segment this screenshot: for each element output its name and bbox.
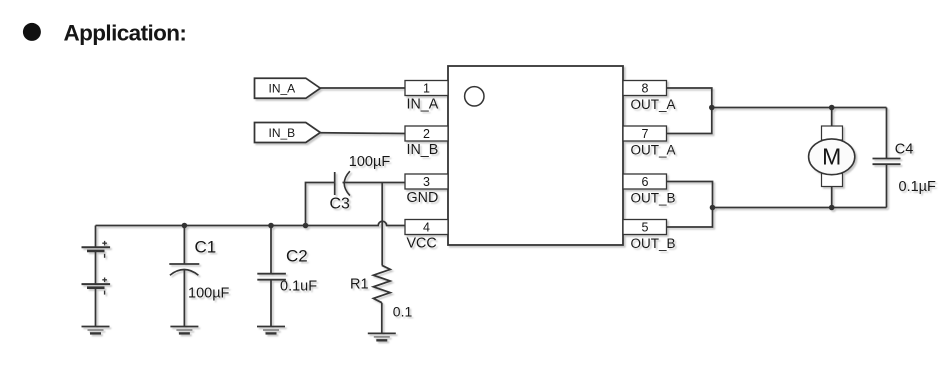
svg-text:IN_B: IN_B [407, 142, 439, 158]
ground (C2) [257, 327, 285, 334]
svg-text:OUT_B: OUT_B [631, 236, 676, 251]
svg-text:C1: C1 [195, 237, 217, 256]
pin-1 indicator circle [465, 87, 484, 106]
battery B1 [82, 226, 111, 285]
wire pin 8 stub [667, 88, 712, 134]
svg-text:100µF: 100µF [188, 285, 230, 301]
connector flag IN_B [255, 123, 321, 143]
wire VCC rail with hop over GND line [96, 221, 406, 225]
svg-text:IN_A: IN_A [269, 82, 296, 96]
svg-text:OUT_A: OUT_A [631, 97, 676, 112]
op-amp U1 IC body [448, 66, 623, 245]
node motor bottom junction [829, 205, 835, 211]
svg-text:7: 7 [642, 127, 649, 141]
svg-text:R1: R1 [350, 277, 369, 293]
node C3 junction [303, 223, 309, 229]
svg-text:VCC: VCC [407, 235, 437, 251]
wire GND net vertical (pin3 to R1) [381, 183, 383, 266]
wire pin 6 stub [667, 182, 713, 228]
svg-text:IN_B: IN_B [269, 126, 296, 140]
svg-text:3: 3 [423, 175, 430, 189]
svg-text:C2: C2 [286, 246, 308, 265]
node C1 junction [182, 223, 188, 229]
pin 4 VCC [405, 220, 448, 252]
ground (C1) [170, 327, 198, 334]
node bus B junction [710, 205, 716, 211]
wire rail A to motor/C4 [712, 107, 887, 109]
node C2 junction [268, 223, 274, 229]
wire rail B to motor/C4 [713, 207, 887, 209]
svg-text:IN_A: IN_A [407, 97, 439, 113]
node bus A junction [709, 105, 715, 111]
svg-text:OUT_A: OUT_A [631, 143, 676, 158]
svg-text:5: 5 [642, 221, 649, 235]
motor M1 [809, 108, 855, 208]
resistor R1 [350, 265, 412, 333]
svg-text:6: 6 [642, 175, 649, 189]
svg-text:8: 8 [642, 82, 649, 96]
svg-text:0.1uF: 0.1uF [280, 279, 317, 295]
pin 6 OUT_B [623, 174, 676, 205]
svg-text:0.1: 0.1 [393, 304, 413, 320]
svg-text:100µF: 100µF [349, 154, 391, 170]
pin 2 IN_B [405, 126, 448, 158]
pin 5 OUT_B [623, 220, 676, 251]
svg-text:Application:: Application: [64, 21, 187, 46]
svg-text:1: 1 [423, 82, 430, 96]
ground (R1) [368, 333, 396, 340]
connector flag IN_A [255, 78, 321, 98]
svg-text:0.1µF: 0.1µF [899, 179, 937, 195]
pin 1 IN_A [405, 81, 448, 113]
wire IN_A to pin 1 [320, 87, 405, 89]
wire IN_B to pin 2 [320, 132, 405, 135]
svg-text:GND: GND [407, 190, 439, 206]
node motor top junction [829, 105, 835, 111]
bullet [23, 23, 41, 41]
svg-text:4: 4 [423, 221, 430, 235]
svg-text:2: 2 [423, 127, 430, 141]
capacitor C4 [873, 108, 937, 208]
pin 7 OUT_A [623, 126, 676, 158]
svg-text:OUT_B: OUT_B [631, 190, 676, 205]
ground (battery) [82, 327, 110, 334]
svg-text:C3: C3 [330, 196, 351, 213]
svg-text:C4: C4 [895, 142, 914, 158]
capacitor C3 (polarized) [306, 154, 406, 225]
capacitor C1 (polarized) [169, 226, 229, 327]
pin 8 OUT_A [623, 81, 676, 113]
capacitor C2 [257, 226, 317, 327]
pin 3 GND [405, 174, 448, 206]
battery B2 [82, 278, 111, 327]
svg-text:M: M [822, 143, 841, 169]
